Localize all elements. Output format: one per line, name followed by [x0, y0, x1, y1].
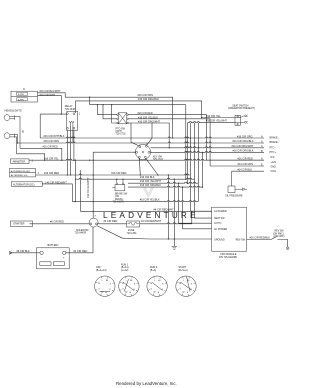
svg-text:L: L — [126, 280, 127, 282]
battery terminal signs — [41, 256, 65, 259]
right pin function labels — [270, 137, 280, 174]
svg-text:LEADVENTURE: LEADVENTURE — [103, 211, 199, 220]
key switch lower diagonals — [146, 158, 158, 175]
svg-text:(ON FMC): (ON FMC) — [273, 233, 284, 235]
key switch terminal letters — [134, 144, 152, 161]
wire row y183.2 — [128, 182, 198, 183]
svg-text:A2: A2 — [101, 291, 103, 294]
seat switch body — [235, 115, 248, 126]
bus wire h1 — [90, 104, 186, 106]
svg-text:GND: GND — [271, 165, 277, 168]
row1 wire #16 CIR ORG — [40, 137, 264, 138]
svg-text:OIL PRESSURE: OIL PRESSURE — [225, 195, 243, 198]
vertical x168.4 — [167, 175, 169, 239]
svg-text:725-1741: 725-1741 — [153, 158, 164, 161]
wire C pin1 / #16 CIR ORN run — [38, 93, 173, 138]
svg-text:A1: A1 — [158, 279, 160, 282]
battery ground arrow — [9, 251, 12, 254]
svg-text:ALTERNATOR (AC): ALTERNATOR (AC) — [11, 170, 31, 173]
svg-text:(B+A): (B+A) — [150, 269, 156, 272]
relay top pin riser / #16 CIR ORG/BLK run — [75, 101, 235, 118]
svg-text:(B+A+C1): (B+A+C1) — [96, 269, 107, 272]
LeadVenture V logo watermark — [143, 188, 155, 199]
svg-text:L: L — [102, 280, 103, 282]
svg-text:A2: A2 — [125, 291, 127, 294]
wire row y201.6 — [72, 201, 198, 202]
svg-text:#16 CIR ORG/BLK: #16 CIR ORG/BLK — [233, 140, 254, 143]
row4 wire #16 CIR ORG/BLK B — [17, 154, 45, 160]
key position RUN1 diagram — [119, 276, 139, 296]
svg-text:#16 CIR ORN: #16 CIR ORN — [138, 94, 154, 97]
headlight lamp 1 — [4, 115, 15, 121]
svg-text:-: - — [41, 256, 42, 259]
svg-text:HEADLIGHTS: HEADLIGHTS — [5, 109, 22, 113]
key switch upper diagonals — [131, 123, 139, 146]
svg-text:C: C — [23, 87, 26, 91]
svg-text:P/N 725-04229B: P/N 725-04229B — [219, 256, 237, 259]
svg-text:M: M — [179, 283, 181, 285]
stub x75.3 — [74, 160, 76, 201]
svg-text:S: S — [95, 215, 97, 217]
svg-text:L: L — [183, 280, 184, 282]
svg-text:(L+A2): (L+A2) — [121, 269, 128, 272]
svg-text:REV SW: REV SW — [236, 239, 246, 242]
svg-text:#16 CIR YEL/WHT: #16 CIR YEL/WHT — [140, 180, 161, 183]
solenoid ground diagonal — [97, 226, 122, 238]
FMC module box — [212, 207, 247, 251]
row junction dots — [67, 174, 68, 175]
svg-text:N/C: N/C — [271, 156, 275, 159]
svg-text:(-ON FMC): (-ON FMC) — [273, 236, 285, 238]
wire #4 CIR RED/WHT to FMC A1 — [80, 210, 211, 212]
key switch body — [135, 144, 150, 159]
oil pressure switch — [228, 171, 247, 192]
svg-text:REV SW: REV SW — [275, 231, 285, 233]
wire C pin2 to relay feed — [38, 96, 62, 115]
key position OFF diagram — [95, 276, 115, 296]
PTO right pin wire to +12V row — [128, 115, 206, 161]
svg-text:AFTERFIRE SOL.: AFTERFIRE SOL. — [11, 174, 29, 177]
svg-text:#6 CIR RED: #6 CIR RED — [104, 220, 118, 223]
svg-text:A: A — [187, 291, 189, 294]
svg-text:G: G — [122, 289, 124, 291]
brake switch body — [112, 179, 125, 191]
svg-text:#16 CIR RED/WHT: #16 CIR RED/WHT — [87, 177, 90, 198]
svg-text:G: G — [151, 289, 153, 291]
svg-text:STARTER: STARTER — [13, 223, 25, 226]
connector C (two 4-pin rows) — [11, 91, 38, 102]
svg-text:1: 1 — [32, 159, 34, 162]
svg-text:#16 CIR RED: #16 CIR RED — [43, 145, 58, 148]
svg-text:#16 CIR WHT/BLK: #16 CIR WHT/BLK — [44, 135, 65, 138]
drop x198.3 row3 to yel/blk row — [197, 123, 199, 202]
key position START diagram — [176, 276, 196, 296]
PTO left pin wires — [98, 105, 117, 115]
solenoid body — [89, 218, 98, 227]
svg-text:M: M — [151, 283, 153, 285]
drop x202.4 row4 — [201, 152, 203, 187]
svg-text:#16 CIR YEL/BLK: #16 CIR YEL/BLK — [140, 199, 160, 202]
svg-text:A: A — [130, 291, 132, 294]
drop to FMC SEAT SW — [195, 123, 212, 218]
ground wire to FMC — [122, 237, 211, 240]
wire row y179.2 — [75, 178, 195, 179]
svg-text:BRAKE SW: BRAKE SW — [115, 193, 128, 196]
svg-text:S: S — [110, 284, 112, 286]
vertical x187.5 — [187, 123, 189, 184]
svg-text:G: G — [179, 289, 181, 291]
drop to FMC A1 POWER — [190, 123, 211, 212]
drop to FMC G PTO — [179, 183, 212, 223]
svg-text:A1: A1 — [106, 279, 108, 282]
chassis ground symbol — [173, 239, 175, 246]
headlight bus wires — [15, 116, 20, 153]
svg-text:A1 POWER: A1 POWER — [214, 210, 227, 213]
svg-text:1: 1 — [79, 113, 81, 116]
fuse F1 — [127, 221, 140, 227]
svg-text:+: + — [63, 256, 65, 259]
relay body — [67, 112, 78, 131]
svg-text:B: B — [22, 129, 24, 133]
PTO right pin wire to GRN row — [128, 119, 210, 166]
svg-text:SEAT SW: SEAT SW — [214, 217, 225, 220]
svg-text:C: C — [261, 145, 263, 148]
row3 wire #16 CIR ORG/WHT — [20, 148, 62, 160]
svg-text:M: M — [122, 283, 124, 285]
svg-text:(B+S+A): (B+S+A) — [179, 269, 188, 272]
svg-text:A2: A2 — [182, 291, 184, 294]
svg-text:G: G — [98, 289, 100, 291]
svg-text:725-1716: 725-1716 — [116, 133, 127, 136]
svg-text:M: M — [98, 283, 100, 285]
starter box — [11, 221, 33, 227]
vertical x174.3 to ground junction — [173, 179, 175, 239]
svg-text:#16 CIR YEL/WHT: #16 CIR YEL/WHT — [206, 120, 227, 123]
svg-text:#16 CIR ORG: #16 CIR ORG — [237, 135, 253, 138]
key position RUN2 diagram — [147, 276, 167, 296]
svg-text:AMMETER: AMMETER — [13, 160, 26, 163]
svg-text:L: L — [139, 145, 140, 147]
svg-text:#16 CIR ORG/BLK: #16 CIR ORG/BLK — [233, 150, 254, 153]
wire row y187.1 — [128, 186, 202, 187]
svg-text:725-04439: 725-04439 — [75, 232, 87, 235]
svg-text:COIL: COIL — [271, 170, 277, 173]
svg-text:#16 CIR BLK: #16 CIR BLK — [140, 176, 155, 179]
svg-text:BRAKE -: BRAKE - — [270, 141, 280, 144]
svg-text:Rendered by LeadVenture, Inc.: Rendered by LeadVenture, Inc. — [116, 381, 177, 386]
PTO right pin wire to row3 — [128, 123, 169, 148]
bus h1 junction dots — [89, 97, 90, 98]
svg-text:725-1648: 725-1648 — [65, 108, 76, 111]
svg-text:#16 CIR ORG/BLK: #16 CIR ORG/BLK — [140, 184, 161, 187]
battery body — [37, 248, 70, 269]
alternator AC box — [10, 168, 36, 177]
svg-text:AC POWER: AC POWER — [214, 228, 227, 231]
svg-text:#4 CIR RED/WHT: #4 CIR RED/WHT — [141, 220, 162, 223]
svg-text:S: S — [134, 284, 136, 286]
headlight bus junction — [17, 142, 18, 143]
ammeter box — [11, 159, 30, 163]
FMC pin labels — [214, 210, 246, 241]
headlight lamp 2 — [4, 133, 15, 139]
ground wire junction — [174, 238, 175, 239]
svg-text:B: B — [109, 289, 111, 291]
svg-text:#4 CIR RED/WHT: #4 CIR RED/WHT — [154, 208, 175, 211]
drop to FMC AC POWER — [183, 187, 212, 229]
svg-text:S: S — [162, 284, 164, 286]
svg-text:720-1361: 720-1361 — [127, 232, 138, 235]
svg-text:GROUND: GROUND — [214, 239, 225, 242]
row2 wire #16 CIR ORG/BLK — [18, 142, 265, 143]
relay bottom pin stubs — [66, 131, 68, 176]
relay feed junction — [61, 113, 62, 114]
svg-text:BATTERY: BATTERY — [48, 244, 60, 247]
vertical x185.8 — [185, 105, 187, 180]
svg-text:L: L — [154, 280, 155, 282]
svg-text:#16 CIR ORG/WHT: #16 CIR ORG/WHT — [232, 145, 254, 148]
svg-text:A1: A1 — [130, 279, 132, 282]
brake switch pin junctions — [116, 179, 117, 180]
seat switch lower wire — [188, 122, 236, 123]
key switch riser junctions — [93, 160, 94, 161]
rev switch terminal — [286, 247, 289, 250]
svg-text:+12V: +12V — [271, 161, 277, 164]
svg-text:G PTO: G PTO — [214, 222, 222, 225]
key switch to solenoid riser — [93, 152, 136, 218]
svg-text:ALTERNATOR (DC): ALTERNATOR (DC) — [13, 183, 35, 186]
svg-text:PEDAL): PEDAL) — [115, 198, 124, 201]
svg-text:#16 CIR YEL: #16 CIR YEL — [206, 115, 221, 118]
svg-text:#16 CIR ORG/BLK: #16 CIR ORG/BLK — [138, 98, 159, 101]
svg-text:(OPERATOR PRESENT): (OPERATOR PRESENT) — [228, 107, 255, 110]
PTO switch body — [117, 113, 129, 124]
svg-text:#16 CIR ORN: #16 CIR ORN — [44, 140, 60, 143]
svg-text:A2: A2 — [154, 291, 156, 294]
svg-text:#16 CIR RED/BLK: #16 CIR RED/BLK — [250, 236, 271, 239]
svg-text:A: A — [158, 291, 160, 294]
svg-text:PTO +: PTO + — [270, 151, 278, 154]
relay left feed wire — [40, 113, 66, 115]
svg-text:4-PIN: 4-PIN — [18, 99, 24, 101]
svg-text:4-PIN: 4-PIN — [18, 94, 24, 96]
svg-text:725-1657C: 725-1657C — [113, 201, 125, 203]
svg-text:PTO -: PTO - — [270, 146, 277, 149]
svg-text:BRAKE -: BRAKE - — [270, 137, 280, 140]
svg-text:#6 CIR RED: #6 CIR RED — [50, 221, 64, 224]
alternator DC box — [11, 182, 42, 187]
svg-text:S: S — [191, 284, 193, 286]
